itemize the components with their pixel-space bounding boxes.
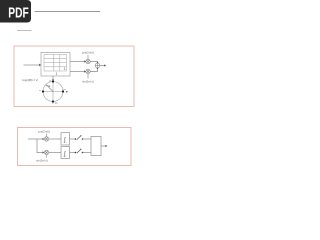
wire: branch to Q mixer (37, 139, 44, 154)
svg-text:c: c (66, 156, 67, 158)
wire: M4 to integrator U2 (49, 152, 61, 154)
mapper table outer box (41, 53, 70, 77)
label sin(2pi fc t) for M2 (82, 80, 94, 84)
wire: M2 to summer (90, 68, 98, 72)
svg-text:PDF: PDF (8, 4, 29, 21)
constellation radius sqrt(Es) (46, 84, 53, 92)
label log2(M)=2 (23, 78, 39, 82)
svg-text:c: c (66, 142, 67, 144)
svg-text:11: 11 (39, 90, 42, 92)
figure frame F2 (demodulator) (18, 128, 132, 166)
switch SW2 (70, 149, 92, 154)
caption rule (17, 30, 32, 32)
figure frame F1 (modulator) (14, 46, 134, 107)
wire: M3 to integrator U1 (49, 138, 61, 140)
constellation point 10 (bottom) (52, 100, 58, 104)
wire: mapper to constellation (52, 76, 54, 81)
label cos(2pi fc t) for M1 (82, 50, 94, 54)
svg-text:cos(2πfct): cos(2πfct) (82, 50, 94, 54)
wire: M1 to summer (90, 62, 98, 64)
svg-text:1: 1 (64, 67, 66, 71)
mixer M2 (86, 69, 90, 78)
wire: Q branch to mixer M2 (70, 70, 86, 72)
mapper table grid (44, 55, 67, 72)
label sin(2pi fc t) for M4 (36, 158, 48, 162)
constellation axes (43, 82, 64, 105)
mixer M1 (86, 55, 90, 64)
mixer M3 (44, 134, 48, 141)
summer S1 (95, 63, 100, 68)
integrator U1 (61, 133, 70, 145)
table value 1 (56, 72, 58, 76)
constellation point 01 (top) (49, 80, 54, 82)
constellation circle (43, 82, 63, 102)
svg-text:log2(M) = 2: log2(M) = 2 (23, 78, 39, 82)
header rule (35, 11, 101, 13)
switch SW1 (70, 135, 92, 140)
integrator U2 (61, 147, 70, 159)
mixer M4 (44, 150, 48, 157)
wire: input to mapper (24, 64, 42, 67)
wire: receiver input (28, 138, 44, 140)
constellation point 11 (left) (39, 90, 44, 93)
svg-text:√E: √E (47, 84, 50, 88)
svg-text:sin(2πfct): sin(2πfct) (82, 80, 94, 84)
wire: I branch to mixer M1 (70, 60, 86, 62)
wire: summer output (100, 64, 106, 66)
svg-text:00: 00 (63, 89, 66, 91)
decision block (91, 137, 101, 156)
svg-text:cos(2πfct): cos(2πfct) (38, 130, 50, 134)
wire: decision output (101, 145, 107, 147)
svg-text:10: 10 (55, 103, 58, 105)
constellation point 00 (right) (62, 89, 67, 92)
label cos(2pi fc t) for M3 (38, 130, 50, 134)
PDF badge (0, 0, 31, 23)
table value 1b (64, 67, 66, 71)
svg-text:sin(2πfct): sin(2πfct) (36, 158, 48, 162)
svg-text:1: 1 (56, 72, 58, 76)
